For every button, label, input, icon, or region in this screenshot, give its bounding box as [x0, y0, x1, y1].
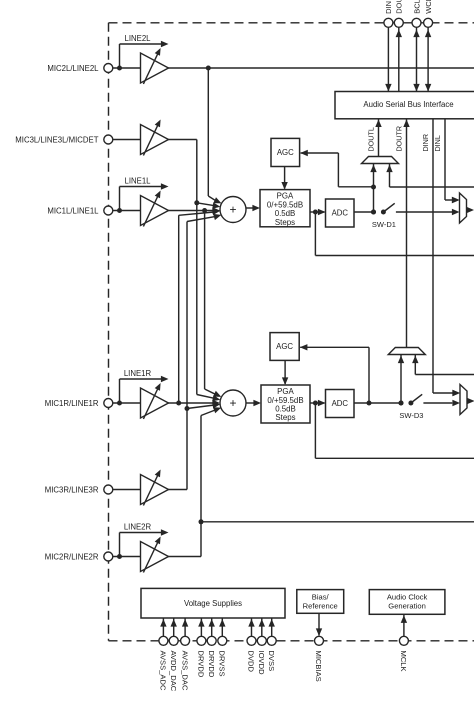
switch SW-D1	[371, 210, 376, 215]
svg-text:LINE1L: LINE1L	[124, 177, 151, 186]
wire pin MIC2R/LINE2R to amp	[113, 556, 141, 558]
node junction A4 tap	[176, 401, 181, 406]
svg-text:0.5dB: 0.5dB	[275, 209, 296, 218]
net DOUTR wire and label	[406, 119, 408, 348]
wire LINE2R bypass with arrow	[119, 533, 121, 557]
svg-text:+: +	[229, 202, 236, 216]
node junction A5 to right summer	[185, 406, 190, 411]
wire A3 output to left summer	[168, 210, 215, 212]
node junction DOUTL-mux input at ADC line	[371, 210, 376, 215]
PGA block U1 (left)	[260, 190, 310, 227]
wire pin MIC3R/LINE3R to amp	[113, 489, 141, 491]
voltage supplies block	[141, 588, 285, 618]
svg-text:Generation: Generation	[388, 602, 426, 611]
arrow DAC-L input select input2	[452, 209, 460, 215]
node junction PGA U1 (left) output	[313, 210, 318, 215]
arrow DAC-L input select input1	[452, 197, 460, 203]
AGC block U1 (left)	[271, 138, 300, 166]
svg-text:SW-D3: SW-D3	[399, 411, 423, 420]
wire A5 branch into right summer	[187, 405, 216, 409]
svg-text:Bias/: Bias/	[312, 592, 330, 601]
node junction A6 branch	[199, 519, 204, 524]
pin MCLK	[403, 615, 405, 637]
wire A5 branch into left summer	[187, 216, 217, 221]
svg-text:AGC: AGC	[276, 342, 293, 351]
ADC block U1 (left)	[326, 199, 355, 227]
svg-text:DRVDD: DRVDD	[207, 651, 216, 678]
svg-text:DRVDD: DRVDD	[197, 651, 206, 678]
mux DOUTL source select trapezoid	[362, 157, 399, 164]
svg-text:DOUT: DOUT	[395, 0, 404, 14]
node junction A1 tap	[206, 66, 211, 71]
wire PGA U1 (left) to ADC	[310, 211, 325, 213]
pin MICBIAS	[318, 613, 320, 635]
net DINR wire and label	[432, 119, 434, 393]
node junction LINE2R tap	[117, 554, 122, 559]
svg-text:Voltage Supplies: Voltage Supplies	[184, 599, 242, 608]
pin DIN with wire	[387, 27, 389, 91]
wire right summer to PGA2	[246, 402, 254, 404]
input amplifier A1 (MIC2L/LINE2L)	[141, 53, 169, 83]
wire DAC-L input select output arrow	[467, 209, 469, 211]
svg-text:MIC3L/LINE3L/MICDET: MIC3L/LINE3L/MICDET	[15, 135, 98, 144]
pin AVDD_DAC supply	[173, 619, 175, 637]
svg-text:AVSS_ADC: AVSS_ADC	[159, 651, 168, 691]
wire LINE1R bypass with arrow	[119, 379, 121, 403]
wire DAC-R input select output arrow	[467, 400, 469, 402]
input amplifier A2 (MIC3L/LINE3L/MICDET)	[141, 125, 169, 155]
pin MIC3R/LINE3R	[104, 485, 113, 494]
wire A3 tap down to right summer	[204, 211, 206, 390]
svg-text:MIC1L/LINE1L: MIC1L/LINE1L	[47, 206, 99, 215]
svg-text:Reference: Reference	[303, 602, 338, 611]
pin DVDD supply	[251, 619, 253, 637]
svg-text:LINE2L: LINE2L	[124, 34, 151, 43]
pin MIC3L/LINE3L/MICDET	[104, 135, 113, 144]
wire left summer to PGA1	[246, 207, 253, 209]
wire A4 tap up to left summer	[178, 215, 180, 403]
wire ADC U1 (left) output	[354, 211, 374, 213]
net DINL wire and label	[444, 119, 446, 200]
pin MIC1R/LINE1R	[104, 399, 113, 408]
svg-text:0.5dB: 0.5dB	[275, 405, 296, 414]
wire A2 branch into left summer	[197, 203, 216, 206]
svg-text:DRVSS: DRVSS	[218, 651, 227, 677]
wire A6 output bend up	[168, 556, 201, 558]
wire A6 into right summer	[201, 410, 217, 416]
wire DOUTR source select input 1	[400, 355, 402, 403]
arrow DAC-R input select input1	[452, 390, 460, 396]
svg-text:AGC: AGC	[277, 148, 294, 157]
svg-text:PGA: PGA	[277, 192, 294, 201]
svg-text:IOVDD: IOVDD	[257, 651, 266, 676]
wire DOUTR source select input 2	[414, 355, 416, 375]
wire pin MIC1L/LINE1L to amp	[113, 210, 141, 212]
bias reference block	[297, 590, 344, 614]
wire A5 output bend up	[168, 489, 187, 491]
audio serial bus interface U-ASBI	[335, 92, 474, 119]
svg-text:DINL: DINL	[433, 135, 442, 151]
wire PGA U2 (right) to ADC	[310, 402, 325, 404]
pin DRVDD supply	[200, 619, 202, 637]
svg-text:Audio Clock: Audio Clock	[387, 592, 428, 601]
node junction A2 to left summer	[194, 200, 199, 205]
wire pin MIC2L/LINE2L to amp	[113, 67, 141, 69]
svg-text:0/+59.5dB: 0/+59.5dB	[267, 200, 303, 209]
svg-text:MCLK: MCLK	[399, 651, 408, 672]
node junction LINE1R tap	[117, 401, 122, 406]
wire pin MIC3L/LINE3L/MICDET to amp	[113, 139, 141, 141]
pin BCLK with wire	[416, 27, 418, 91]
chip boundary dashed bottom edge	[109, 640, 474, 642]
node junction PGA U2 (right) output	[313, 401, 318, 406]
net DOUTL wire and label	[378, 119, 380, 157]
svg-text:Steps: Steps	[275, 218, 295, 227]
PGA block U2 (right)	[261, 385, 310, 423]
wire AGC U1 (left) tap	[337, 153, 339, 187]
svg-text:DIN: DIN	[384, 1, 393, 14]
wire AGC1 tap horizontal	[338, 186, 373, 188]
node junction AGC1 tap point	[371, 185, 376, 190]
svg-text:DOUTL: DOUTL	[367, 127, 376, 151]
pin MIC2L/LINE2L	[104, 64, 113, 73]
node junction LINE2L tap	[117, 66, 122, 71]
pin IOVDD supply	[261, 619, 263, 637]
wire AGC U1 (left) to PGA	[284, 167, 286, 189]
wire DOUTL source select input 2	[389, 164, 391, 187]
svg-text:WCLK: WCLK	[424, 0, 433, 14]
svg-text:ADC: ADC	[332, 209, 349, 218]
svg-text:DVSS: DVSS	[267, 651, 276, 672]
chip boundary dashed top edge	[109, 22, 474, 24]
wire LINE2L bypass with arrow	[119, 44, 121, 68]
wire DOUTL source select input 1	[373, 164, 375, 212]
pin DVSS supply	[271, 619, 273, 637]
pin WCLK with wire	[427, 27, 429, 91]
node junction A3 tap	[202, 208, 207, 213]
chip boundary dashed left edge	[108, 23, 110, 641]
input amplifier A4 (MIC1R/LINE1R)	[141, 388, 169, 418]
svg-text:MIC2L/LINE2L: MIC2L/LINE2L	[47, 64, 99, 73]
pin MIC2R/LINE2R	[104, 552, 113, 561]
svg-text:DINR: DINR	[421, 134, 430, 152]
input amplifier A6 (MIC2R/LINE2R)	[141, 542, 169, 572]
summing junction left channel	[220, 197, 246, 223]
wire pin MIC1R/LINE1R to amp	[113, 402, 141, 404]
summing junction right channel	[220, 390, 246, 416]
wire ADC U2 (right) output	[354, 402, 401, 404]
pin AVSS_ADC supply	[162, 619, 164, 637]
mux DAC-R input select trapezoid	[460, 385, 467, 415]
svg-text:MIC1R/LINE1R: MIC1R/LINE1R	[45, 399, 99, 408]
wire A1 output to right edge	[168, 67, 474, 69]
svg-text:PGA: PGA	[277, 387, 294, 396]
input amplifier A3 (MIC1L/LINE1L)	[141, 196, 169, 226]
input amplifier A5 (MIC3R/LINE3R)	[141, 475, 169, 505]
pin AVSS_DAC supply	[184, 619, 186, 637]
pin DOUT with wire	[398, 27, 400, 91]
svg-text:LINE2R: LINE2R	[124, 523, 152, 532]
switch SW-D3	[399, 401, 404, 406]
wire LINE1L bypass with arrow	[119, 187, 121, 211]
node junction AGC2 tap point	[367, 401, 372, 406]
svg-text:MICBIAS: MICBIAS	[314, 651, 323, 682]
wire AGC U2 (right) tap	[368, 347, 370, 403]
wire AGC U2 (right) to PGA	[284, 360, 286, 384]
AGC block U2 (right)	[270, 333, 299, 361]
arrow DAC-R input select input2	[452, 400, 460, 406]
svg-text:MIC2R/LINE2R: MIC2R/LINE2R	[45, 552, 99, 561]
svg-text:DOUTR: DOUTR	[395, 126, 404, 152]
svg-text:MIC3R/LINE3R: MIC3R/LINE3R	[45, 485, 99, 494]
wire A2 output bend down	[168, 139, 197, 141]
svg-text:DVDD: DVDD	[247, 651, 256, 673]
node junction LINE1L tap	[117, 208, 122, 213]
svg-text:+: +	[229, 396, 236, 410]
mux DOUTR source select trapezoid	[388, 348, 425, 355]
wire PGA U2 (right) feedback to right edge	[314, 403, 316, 458]
ADC block U2 (right)	[326, 390, 355, 418]
svg-text:Audio Serial Bus Interface: Audio Serial Bus Interface	[363, 100, 453, 109]
wire PGA U1 (left) feedback to right edge	[314, 212, 316, 256]
svg-text:BCLK: BCLK	[412, 0, 421, 14]
svg-text:0/+59.5dB: 0/+59.5dB	[267, 396, 303, 405]
wire A4 output to right summer	[168, 402, 215, 404]
pin DRVSS supply	[221, 619, 223, 637]
svg-text:Steps: Steps	[275, 413, 295, 422]
svg-text:SW-D1: SW-D1	[372, 220, 396, 229]
wire A6 branch to right edge	[201, 521, 474, 523]
wire A2 branch into right summer	[197, 395, 216, 399]
svg-text:LINE1R: LINE1R	[124, 369, 152, 378]
svg-text:AVSS_DAC: AVSS_DAC	[180, 651, 189, 691]
svg-text:ADC: ADC	[332, 399, 349, 408]
pin MIC1L/LINE1L	[104, 206, 113, 215]
mux DAC-L input select trapezoid	[460, 193, 467, 223]
wire A1 tap down to left summer	[207, 68, 209, 196]
audio clock generation block	[369, 590, 445, 615]
svg-text:AVDD_DAC: AVDD_DAC	[169, 651, 178, 692]
node junction DOUTR-mux input at ADC line	[399, 401, 404, 406]
pin DRVDD supply	[211, 619, 213, 637]
